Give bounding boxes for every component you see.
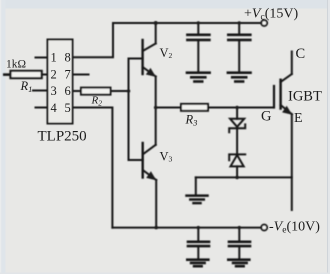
capacitor C3 — [188, 228, 209, 259]
ground (C2) — [228, 73, 251, 82]
wire zener/emitter bus — [196, 176, 292, 178]
wire +V top rail — [113, 22, 261, 24]
svg-text:TLP250: TLP250 — [38, 129, 87, 145]
capacitor C2 — [228, 23, 250, 71]
wire R1 to pin 2 — [42, 74, 48, 76]
svg-text:3: 3 — [51, 84, 57, 98]
svg-text:6: 6 — [65, 84, 71, 98]
wire mid node to R3 — [156, 107, 181, 109]
zener diode D2 — [229, 154, 245, 177]
wire to ground — [195, 177, 197, 194]
label pin numbers — [51, 51, 71, 115]
wire R2 to base column — [111, 90, 129, 92]
resistor R1 (1k ohm) — [11, 71, 42, 78]
ground (C4) — [228, 260, 249, 267]
wire V2 emitter to mid node — [155, 77, 157, 108]
svg-text:E: E — [294, 111, 303, 126]
zener diode D1 — [229, 108, 245, 155]
terminal +Vc — [261, 20, 267, 26]
svg-text:2: 2 — [51, 68, 57, 82]
IC U1 TLP250 body — [48, 40, 73, 124]
svg-text:+Vc(15V): +Vc(15V) — [244, 7, 298, 23]
wire pin 5 down to -V rail — [73, 108, 113, 228]
wire pin 6 to R2 — [73, 90, 82, 92]
transistor V3 — [129, 108, 157, 181]
pin 3 stub — [33, 90, 48, 92]
svg-text:1: 1 — [51, 51, 57, 65]
transistor V2 — [129, 23, 156, 77]
resistor R2 — [81, 88, 111, 95]
ground (zener bus) — [187, 196, 208, 204]
wire V3 collector to bottom rail — [155, 180, 157, 228]
svg-text:G: G — [261, 109, 272, 125]
svg-text:8: 8 — [65, 51, 71, 65]
wire R1 left lead — [4, 73, 10, 76]
svg-text:1kΩ: 1kΩ — [6, 58, 26, 70]
wire pin 8 up to +V rail — [73, 23, 114, 57]
svg-text:5: 5 — [65, 101, 71, 115]
svg-text:7: 7 — [65, 68, 71, 82]
terminal -Ve — [261, 225, 267, 231]
wire R3 to gate / zener node — [208, 107, 274, 109]
svg-text:IGBT: IGBT — [288, 89, 322, 105]
pin 4 stub — [36, 107, 48, 109]
capacitor C1 — [187, 23, 209, 71]
wire -V bottom rail — [112, 227, 261, 229]
node base column wire — [128, 59, 130, 161]
svg-text:4: 4 — [51, 101, 58, 115]
svg-text:C: C — [296, 46, 306, 62]
pin 1 stub — [36, 57, 48, 59]
resistor R3 — [181, 104, 208, 111]
svg-text:-Ve(10V): -Ve(10V) — [269, 220, 320, 236]
IGBT Q1 — [274, 52, 292, 211]
pin 7 stub — [73, 74, 89, 76]
capacitor C4 — [229, 228, 250, 259]
ground (C3) — [187, 260, 208, 267]
ground (C1) — [187, 73, 210, 82]
